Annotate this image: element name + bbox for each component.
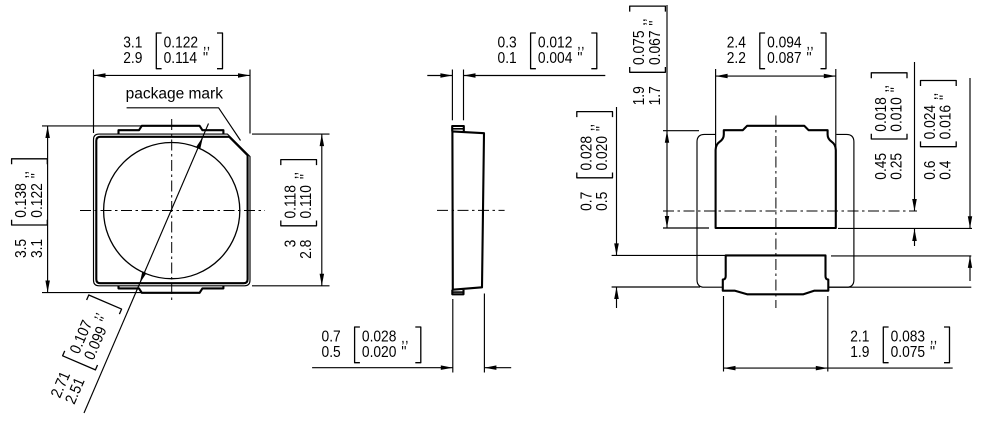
svg-text:0.110: 0.110 bbox=[298, 185, 315, 218]
svg-text:3.5: 3.5 bbox=[13, 239, 30, 258]
svg-text:'': '' bbox=[203, 51, 208, 68]
svg-text:0.5: 0.5 bbox=[594, 192, 611, 211]
svg-text:0.028: 0.028 bbox=[579, 136, 596, 170]
svg-text:0.6: 0.6 bbox=[922, 161, 939, 180]
svg-text:0.012: 0.012 bbox=[538, 35, 572, 52]
svg-text:0.094: 0.094 bbox=[767, 35, 801, 52]
svg-text:0.118: 0.118 bbox=[283, 185, 300, 218]
svg-text:0.25: 0.25 bbox=[889, 153, 906, 180]
svg-text:'': '' bbox=[930, 345, 935, 362]
svg-text:'': '' bbox=[298, 174, 315, 179]
svg-text:2.4: 2.4 bbox=[727, 35, 746, 52]
svg-text:0.020: 0.020 bbox=[362, 345, 396, 362]
svg-text:0.075: 0.075 bbox=[891, 345, 925, 362]
svg-text:0.7: 0.7 bbox=[579, 192, 596, 211]
svg-text:0.024: 0.024 bbox=[922, 105, 939, 139]
svg-text:0.5: 0.5 bbox=[322, 345, 341, 362]
svg-text:0.075: 0.075 bbox=[632, 31, 649, 65]
svg-text:2.8: 2.8 bbox=[298, 240, 315, 259]
svg-text:0.028: 0.028 bbox=[362, 329, 396, 346]
svg-text:1.9: 1.9 bbox=[632, 86, 649, 105]
svg-text:'': '' bbox=[806, 51, 811, 68]
svg-text:0.122: 0.122 bbox=[29, 183, 46, 217]
svg-text:0.010: 0.010 bbox=[889, 97, 906, 131]
svg-text:0.114: 0.114 bbox=[164, 51, 197, 68]
svg-text:0.004: 0.004 bbox=[538, 51, 572, 68]
svg-text:1.7: 1.7 bbox=[647, 86, 664, 105]
svg-text:0.3: 0.3 bbox=[498, 35, 517, 52]
svg-text:0.4: 0.4 bbox=[938, 161, 955, 180]
svg-text:0.7: 0.7 bbox=[322, 329, 341, 346]
svg-text:0.083: 0.083 bbox=[891, 329, 925, 346]
svg-text:'': '' bbox=[577, 51, 582, 68]
svg-text:0.122: 0.122 bbox=[164, 35, 198, 52]
svg-text:'': '' bbox=[889, 87, 906, 92]
svg-text:'': '' bbox=[938, 95, 955, 100]
svg-text:0.020: 0.020 bbox=[594, 136, 611, 170]
svg-text:0.016: 0.016 bbox=[938, 105, 955, 139]
svg-text:3.1: 3.1 bbox=[29, 239, 46, 258]
svg-text:'': '' bbox=[594, 126, 611, 131]
svg-text:3.1: 3.1 bbox=[123, 35, 142, 52]
svg-text:'': '' bbox=[647, 20, 664, 25]
svg-text:package mark: package mark bbox=[126, 86, 224, 103]
svg-text:2.9: 2.9 bbox=[123, 51, 142, 68]
svg-text:0.1: 0.1 bbox=[498, 51, 517, 68]
svg-text:'': '' bbox=[401, 345, 406, 362]
svg-text:0.018: 0.018 bbox=[873, 97, 890, 131]
svg-text:3: 3 bbox=[283, 240, 300, 248]
svg-text:0.067: 0.067 bbox=[647, 31, 664, 65]
svg-text:0.45: 0.45 bbox=[873, 153, 890, 180]
svg-text:0.087: 0.087 bbox=[767, 51, 801, 68]
svg-text:1.9: 1.9 bbox=[850, 345, 869, 362]
svg-text:2.2: 2.2 bbox=[727, 51, 746, 68]
svg-text:2.1: 2.1 bbox=[850, 329, 869, 346]
svg-text:0.138: 0.138 bbox=[13, 183, 30, 217]
svg-text:'': '' bbox=[29, 173, 46, 178]
